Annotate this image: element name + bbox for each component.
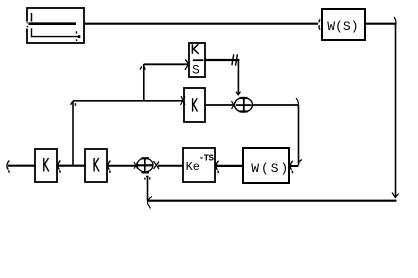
- wire Ke to sum1: [158, 165, 183, 167]
- arrowhead down into sum2: [236, 92, 241, 95]
- wire riser A to K/S: [144, 63, 188, 65]
- double slash arrow marks at K/S output corner: [232, 54, 238, 65]
- wire W(S)bot to Ke: [215, 165, 243, 167]
- block Ke^-TS: [183, 148, 215, 182]
- input box lower ramp line: [32, 28, 79, 36]
- S2 left arrowhead x: [232, 101, 237, 109]
- arrowhead up riser A: [140, 66, 145, 69]
- bottom main wire: far-left output: [8, 165, 35, 167]
- svg-text:W(S): W(S): [327, 19, 358, 34]
- block K2: [85, 149, 107, 182]
- input box left edge dots: [27, 22, 29, 27]
- arrowhead into K row2 x-style: [181, 96, 186, 105]
- summing junction S2: [235, 98, 253, 112]
- block K row2: [184, 88, 205, 122]
- riser A vertical: [143, 64, 145, 101]
- wire K2 to K1: [57, 165, 85, 167]
- output arrowhead far left: [7, 161, 9, 173]
- feedback wire bottom: [147, 200, 397, 202]
- summing junction S1: [137, 158, 153, 172]
- block W(S) bottom: [243, 148, 289, 183]
- S1 left arrowhead x: [134, 162, 138, 169]
- arrowhead down at right rail bottom: [392, 193, 399, 198]
- svg-text:W(S): W(S): [251, 161, 290, 176]
- input box thick step line: [29, 22, 77, 25]
- arrowhead into K/S: [185, 59, 189, 69]
- arrowhead into K1: [58, 161, 60, 173]
- input box lower line arrowhead: [78, 35, 80, 38]
- arrowhead into K2: [108, 161, 110, 173]
- wire from sum2 down into W(S) bottom: [298, 105, 300, 165]
- feedback corner arrow: [148, 197, 153, 209]
- right rail wire down: [395, 24, 397, 197]
- input box vertical tick: [31, 13, 33, 22]
- wire: source to W(S) top: [84, 23, 318, 25]
- wire: W(S) top output to right rail: [365, 23, 396, 25]
- arrowhead up riser B: [71, 102, 76, 106]
- corner flourish sum2 output: [296, 98, 298, 108]
- riser B vertical from bottom wire: [72, 101, 74, 165]
- arrowhead into W(S) bottom right: [290, 160, 301, 174]
- block K1: [35, 149, 57, 182]
- arrowhead into Ke: [216, 161, 218, 173]
- wire corner down to sum2: [237, 60, 239, 95]
- wire K row2 to sum2: [205, 104, 234, 106]
- input source box: [27, 8, 84, 43]
- block W(S) top: [322, 9, 365, 40]
- S1 right arrowhead x: [154, 161, 160, 169]
- arrowhead into W(S) top: [319, 19, 320, 30]
- svg-text:-TS: -TS: [199, 154, 215, 164]
- corner flourish: [394, 17, 396, 26]
- svg-text:S: S: [192, 63, 200, 78]
- feedback riser into sum1: [147, 177, 149, 201]
- wire riser B horizontal to K row2: [73, 100, 183, 102]
- arrowhead up into sum1: [146, 176, 149, 178]
- wire sum1 to K2: [107, 165, 137, 167]
- wire sum2 to corner: [253, 104, 299, 106]
- wire K/S output to corner: [205, 59, 239, 61]
- block K/S: [189, 43, 205, 77]
